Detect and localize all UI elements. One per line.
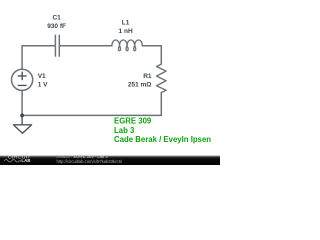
wire cap to coil — [60, 45, 112, 47]
svg-text:251 mΩ: 251 mΩ — [128, 81, 152, 88]
svg-text:L1: L1 — [122, 20, 130, 27]
svg-text:LAB: LAB — [21, 158, 30, 163]
wire bottom — [22, 114, 161, 116]
svg-text:V1: V1 — [38, 73, 46, 80]
inductor L1 — [112, 40, 142, 51]
capacitor C1 — [55, 35, 59, 57]
svg-text:R1: R1 — [143, 73, 152, 80]
svg-text:Cade Berak / Eveyln Ipsen: Cade Berak / Eveyln Ipsen — [114, 135, 211, 144]
svg-text:http://circuitlab.com/c/57kab3: http://circuitlab.com/c/57kab33krc5/ — [57, 159, 123, 164]
label C1 — [47, 14, 66, 30]
voltage source V1 — [12, 69, 33, 90]
svg-text:1 V: 1 V — [38, 81, 48, 88]
ground — [13, 115, 31, 133]
svg-text:Lab 3: Lab 3 — [114, 126, 135, 135]
resistor R1 — [157, 64, 167, 92]
wire resistor bottom to corner — [160, 93, 162, 116]
label V1 — [38, 73, 48, 89]
svg-text:EGRE 309: EGRE 309 — [114, 116, 152, 125]
svg-text:C1: C1 — [52, 14, 61, 21]
label R1 — [128, 73, 152, 89]
junction node — [20, 114, 24, 118]
svg-text:930 fF: 930 fF — [47, 23, 66, 30]
wire V1 bottom stub — [21, 90, 23, 115]
annotation green text — [114, 116, 211, 144]
wire top-left segment — [22, 46, 55, 69]
wire coil to top-right corner — [142, 46, 161, 64]
svg-text:1 nH: 1 nH — [119, 28, 133, 35]
label L1 — [119, 20, 133, 36]
